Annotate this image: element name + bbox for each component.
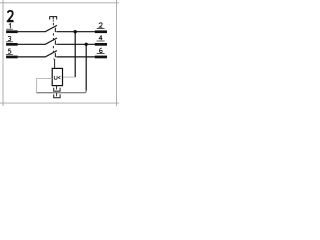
socket upper xyxy=(54,88,60,91)
manual actuator symbol xyxy=(49,17,57,20)
wire pole 3 right xyxy=(56,56,95,58)
plug pin upper xyxy=(56,86,58,90)
terminal label 2 xyxy=(99,23,102,27)
terminal label 3 underline xyxy=(6,41,13,43)
terminal bar 2 (right, pole 1) xyxy=(95,30,107,33)
wire drop from pole 1 xyxy=(74,32,76,77)
junction dot pole 1 xyxy=(74,30,77,33)
mechanical linkage (dashed) xyxy=(52,23,54,59)
terminal label 6 underline xyxy=(97,53,105,55)
terminal label 4 underline xyxy=(97,40,105,42)
socket lower xyxy=(54,94,60,97)
coil value label U< xyxy=(54,76,57,79)
terminal bar 4 (right, pole 2) xyxy=(95,43,107,46)
sheet number 2 xyxy=(8,11,13,21)
terminal label 3 xyxy=(8,36,11,40)
contact blade pole 1 xyxy=(45,25,57,32)
contact blade pole 3 xyxy=(45,51,57,58)
wire pole 1 right xyxy=(56,31,95,33)
wire coil right lead xyxy=(63,76,75,78)
terminal bar 6 (right, pole 3) xyxy=(95,56,107,59)
coil bottom wire xyxy=(37,91,87,93)
plug pin lower xyxy=(56,93,58,97)
terminal bar 5 (left, pole 3) xyxy=(6,56,18,59)
terminal label 2 underline xyxy=(97,27,105,29)
wire drop from pole 2 xyxy=(85,44,87,90)
terminal bar 3 (left, pole 2) xyxy=(6,43,18,46)
wire pole 2 left xyxy=(18,43,46,45)
wire pole 1 left xyxy=(18,31,46,33)
terminal label 1 xyxy=(9,24,10,29)
terminal label 1 underline xyxy=(6,28,13,30)
mechanical linkage dash below actuator xyxy=(52,20,54,21)
terminal bar 1 (left, pole 1) xyxy=(6,30,18,33)
undervoltage release coil U< xyxy=(52,68,62,85)
wire pole 3 left xyxy=(18,56,46,58)
junction dot pole 2 xyxy=(85,43,88,46)
terminal label 6 xyxy=(100,48,103,53)
linkage stem to release box xyxy=(54,59,56,69)
contact blade pole 2 xyxy=(45,38,57,45)
terminal label 5 underline xyxy=(6,53,13,55)
terminal label 4 xyxy=(99,35,102,40)
terminal label 5 xyxy=(8,49,11,53)
coil left lead (gray) xyxy=(37,79,53,93)
wire pole 2 right xyxy=(56,43,95,45)
